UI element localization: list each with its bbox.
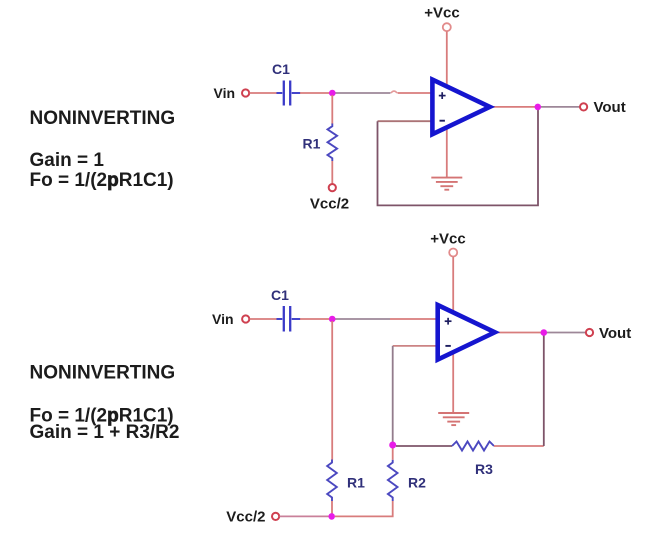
capacitor C1 (bottom)	[277, 306, 301, 332]
svg-text:Fo = 1/(2pR1C1): Fo = 1/(2pR1C1)	[30, 170, 174, 191]
wire - input down to node E (bottom)	[392, 346, 394, 445]
wire node A to op-amp + (gray segment, top)	[332, 92, 390, 94]
op-amp U1 (top)	[432, 80, 489, 135]
node F (bottom output node)	[541, 329, 548, 336]
node E (feedback junction)	[389, 442, 396, 449]
svg-text:+Vcc: +Vcc	[430, 230, 465, 247]
capacitor C1 (top)	[277, 81, 301, 106]
op-amp U2 (bottom)	[438, 305, 495, 360]
svg-text:Gain = 1 + R3/R2: Gain = 1 + R3/R2	[30, 422, 180, 443]
wire +Vcc down through op-amp to ground (bottom)	[452, 257, 454, 413]
wire R3 to output corner (bottom)	[494, 445, 544, 447]
resistor R1 (bottom)	[327, 460, 337, 502]
wire C1 to node C (bottom)	[300, 318, 332, 320]
terminal +Vcc (bottom)	[449, 249, 457, 257]
wire feedback loop (top): left/bottom/right	[378, 108, 539, 205]
svg-text:Vout: Vout	[599, 325, 631, 342]
node D (R1 bottom rail junction)	[328, 513, 335, 520]
wire to op-amp + input (salmon segment, top)	[398, 92, 438, 94]
svg-text:C1: C1	[271, 287, 289, 303]
wire op-amp - input horizontal (bottom)	[393, 345, 442, 347]
svg-text:Vout: Vout	[594, 99, 626, 116]
pin + mark U2 (bottom)	[445, 318, 452, 325]
terminal Vin (top)	[242, 89, 249, 96]
pin - mark U2 (bottom)	[445, 345, 450, 347]
svg-text:Vcc/2: Vcc/2	[226, 508, 265, 525]
pin - mark U1 (top)	[440, 120, 445, 122]
svg-text:Vin: Vin	[212, 311, 234, 327]
svg-text:NONINVERTING: NONINVERTING	[30, 363, 176, 384]
svg-text:Gain = 1: Gain = 1	[30, 150, 105, 171]
terminal +Vcc (top)	[443, 23, 451, 31]
wire op-amp output to node F (bottom)	[493, 332, 544, 334]
terminal Vout (bottom)	[586, 329, 593, 336]
wire to op-amp + input (salmon segment, bottom)	[390, 318, 442, 320]
wire rail to R2 and up (bottom)	[335, 501, 393, 516]
wire op-amp - input horizontal (top)	[378, 120, 438, 122]
wire node A down to R1 (top)	[331, 95, 333, 124]
ground (bottom)	[438, 413, 469, 425]
wire op-amp output to node B (top)	[488, 106, 538, 108]
wire node C down to R1 (bottom)	[331, 321, 333, 460]
terminal Vcc/2 (top)	[329, 184, 336, 191]
node C (bottom input node)	[329, 316, 336, 323]
wire R1 to bottom rail	[331, 501, 333, 516]
wire C1 to node A (top)	[300, 92, 332, 94]
terminal Vcc/2 (bottom)	[272, 513, 279, 520]
wire node B to Vout terminal (top)	[541, 106, 580, 108]
node B (top output node)	[535, 104, 542, 111]
wire hop bump (top)	[391, 91, 397, 93]
wire +Vcc down through op-amp to ground (top)	[446, 31, 448, 177]
wire Vin terminal to C1 (top)	[250, 92, 277, 94]
svg-text:R1: R1	[347, 474, 365, 490]
terminal Vin (bottom)	[242, 315, 249, 322]
wire Vcc/2 rail left segment (bottom)	[280, 515, 332, 517]
svg-text:+Vcc: +Vcc	[424, 5, 459, 22]
wire node E up from R2 (bottom)	[392, 445, 394, 460]
terminal Vout (top)	[580, 103, 587, 110]
ground (top)	[431, 178, 462, 190]
wire node E to R3 (bottom)	[396, 445, 452, 447]
svg-text:R2: R2	[408, 474, 426, 490]
svg-text:R1: R1	[303, 136, 321, 152]
svg-text:Vin: Vin	[214, 85, 236, 101]
svg-text:R3: R3	[475, 461, 493, 477]
resistor R1 (top)	[328, 124, 338, 162]
wire R1 to Vcc/2 terminal (top)	[331, 161, 333, 184]
node A (top input node)	[329, 90, 336, 97]
pin + mark U1 (top)	[439, 92, 446, 99]
svg-text:NONINVERTING: NONINVERTING	[30, 108, 176, 129]
wire node F to Vout terminal (bottom)	[547, 332, 586, 334]
wire Vin terminal to C1 (bottom)	[250, 318, 277, 320]
resistor R3 (bottom)	[452, 442, 494, 451]
wire node C to op-amp + (gray segment, bottom)	[332, 318, 390, 320]
wire feedback right vertical (bottom)	[543, 334, 545, 446]
svg-text:Vcc/2: Vcc/2	[310, 196, 349, 213]
resistor R2 (bottom)	[388, 460, 398, 501]
svg-text:C1: C1	[272, 61, 290, 77]
